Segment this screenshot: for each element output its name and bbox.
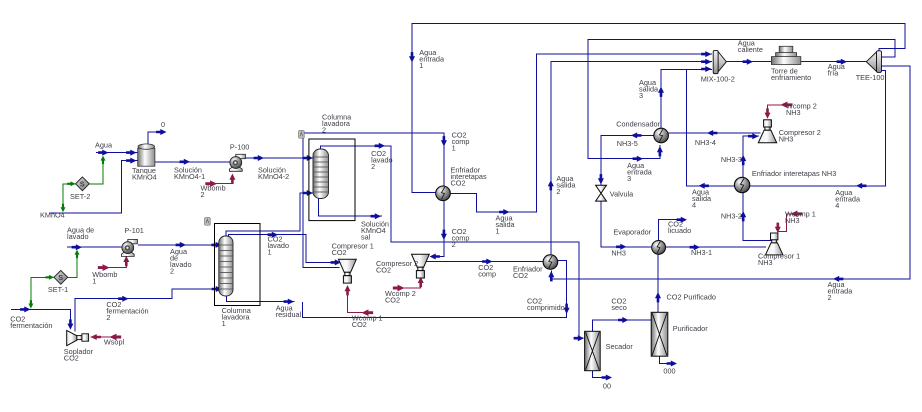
svg-text:CO2: CO2 <box>376 265 391 274</box>
wire CO2 fermentacion 2 blower to column1 <box>75 289 219 332</box>
wire SET-2 link to Agua <box>90 157 103 184</box>
svg-text:fría: fría <box>828 68 839 77</box>
wire NH3-4 compressor2 NH3 to condenser <box>669 132 761 134</box>
wire stream 000 purifier bottoms <box>660 356 668 363</box>
svg-text:SET-2: SET-2 <box>70 192 90 201</box>
boundary column 1 flowsheet <box>215 224 261 306</box>
svg-text:1: 1 <box>268 248 272 257</box>
svg-text:CO2: CO2 <box>513 271 528 280</box>
svg-text:NH3: NH3 <box>785 216 800 225</box>
wire Agua salida 2 Enfriador CO2 to mixer input 2 <box>551 62 712 255</box>
svg-text:CO2: CO2 <box>352 320 367 329</box>
svg-text:KMnO4-2: KMnO4-2 <box>258 172 289 181</box>
boundary column 2 flowsheet <box>309 139 355 221</box>
svg-text:NH3-5: NH3-5 <box>617 139 638 148</box>
svg-text:comprimido: comprimido <box>527 303 565 312</box>
svg-text:KMnO4: KMnO4 <box>40 210 65 219</box>
svg-text:SET-1: SET-1 <box>48 285 68 294</box>
svg-text:NH3: NH3 <box>758 258 773 267</box>
tank Tanque KMnO4 <box>138 144 155 166</box>
svg-text:TEE-100: TEE-100 <box>856 73 885 82</box>
svg-text:seco: seco <box>611 303 626 312</box>
svg-text:Secador: Secador <box>606 342 634 351</box>
SET logical connections green <box>31 157 103 308</box>
wire NH3 valve to evaporator <box>601 201 651 247</box>
heat exchanger Enfriador CO2 <box>543 255 558 270</box>
svg-text:00: 00 <box>603 381 611 390</box>
wire NH3-2 compressor1 NH3 to intercooler NH3 <box>743 193 772 240</box>
wire CO2 licuado from evaporator <box>659 220 684 241</box>
wire Agua salida 1 to mixer input 1 <box>450 54 712 212</box>
wire Solucion KMnO4 sal <box>319 199 382 217</box>
heat exchanger Enfriador interetapas CO2 <box>436 186 451 201</box>
column Columna lavadora 2 <box>313 149 329 199</box>
svg-text:comp: comp <box>478 269 496 278</box>
svg-text:4: 4 <box>835 201 839 210</box>
wire stream KMnO4 into tank <box>49 161 138 213</box>
blower Soplador CO2 <box>67 330 89 345</box>
svg-text:enfriamiento: enfriamiento <box>771 73 811 82</box>
subflowsheet marker column 2 <box>299 131 305 139</box>
svg-text:KMnO4: KMnO4 <box>132 173 157 182</box>
wire energy Wbomb 2 <box>212 175 232 184</box>
wire energy Wcomp 2 NH3 <box>768 105 783 118</box>
wire Agua entrada 1 TEE to intercooler CO2 <box>412 23 905 192</box>
svg-text:2: 2 <box>201 190 205 199</box>
svg-text:KMnO4-1: KMnO4-1 <box>174 172 205 181</box>
heat exchanger Condensador <box>654 128 669 143</box>
pump P-101 <box>121 239 137 256</box>
svg-text:NH3-2: NH3-2 <box>721 211 742 220</box>
heat exchanger Evaporador <box>652 240 666 254</box>
svg-text:NH3: NH3 <box>786 108 801 117</box>
svg-text:1: 1 <box>222 319 226 328</box>
set operator SET-1 <box>54 270 68 284</box>
wire Agua entrada 4 TEE to Enfriador NH3 <box>750 70 885 186</box>
wire energy Wcomp 1 NH3 <box>778 214 792 233</box>
wire Agua salida 3 condenser to mixer input 3 <box>661 69 712 128</box>
svg-text:S: S <box>80 180 85 189</box>
subflowsheet marker column 1 <box>205 218 211 226</box>
svg-text:4: 4 <box>692 201 696 210</box>
svg-text:CO2: CO2 <box>332 248 347 257</box>
wire SET-1 link to CO2 fermentacion <box>31 277 54 307</box>
svg-text:1: 1 <box>419 61 423 70</box>
wire Agua salida 4 Enfriador NH3 to mixer line <box>687 69 735 185</box>
wire Enfriador CO2 outlet loop to lower header <box>302 261 566 318</box>
svg-text:3: 3 <box>627 174 631 183</box>
valve Valvula <box>596 185 607 201</box>
svg-text:CO2: CO2 <box>64 353 79 362</box>
column Columna lavadora 1 <box>219 236 233 296</box>
svg-text:NH3-1: NH3-1 <box>691 248 712 257</box>
svg-text:P-100: P-100 <box>230 143 249 152</box>
wire Agua entrada 2 TEE to Enfriador CO2 <box>551 66 910 279</box>
svg-text:2: 2 <box>556 187 560 196</box>
svg-text:CO2: CO2 <box>451 178 466 187</box>
wire SET-2 link to KMnO4 <box>63 184 75 211</box>
wire Agua de lavado to P-101 <box>67 246 122 248</box>
svg-text:2: 2 <box>828 293 832 302</box>
set operator SET-2 <box>76 177 90 191</box>
svg-text:lavado: lavado <box>67 232 89 241</box>
svg-text:Wsopl: Wsopl <box>104 337 125 346</box>
svg-text:Enfriador interetapas NH3: Enfriador interetapas NH3 <box>752 169 836 178</box>
wire CO2 Purificado purifier to evaporator <box>657 254 659 312</box>
wire Agua de lavado 2 P-101 to column1 <box>138 244 219 246</box>
wire Solucion KMnO4-1 tank to P-100 <box>155 161 230 163</box>
wire Agua fria tower to TEE <box>801 61 866 63</box>
wire stream 0 (tank vent) <box>148 132 158 145</box>
wire Agua entrada 3 TEE to condenser <box>588 40 895 159</box>
compressor Compresor 2 CO2 <box>412 254 430 278</box>
svg-text:Purificador: Purificador <box>673 324 708 333</box>
wire energy Wcomp 1 CO2 <box>348 286 365 313</box>
wire Agua caliente mixer to tower <box>726 61 771 63</box>
svg-text:Agua: Agua <box>95 141 113 150</box>
energy streams maroon <box>91 105 793 337</box>
wire Agua residual column1 bottoms <box>227 296 295 301</box>
svg-text:sal: sal <box>361 232 371 241</box>
adsorber Purificador <box>651 312 668 356</box>
svg-text:0: 0 <box>161 120 165 129</box>
svg-text:lavadora: lavadora <box>322 119 351 128</box>
svg-text:NH3: NH3 <box>779 135 794 144</box>
wire CO2 seco dryer to purifier <box>593 320 652 331</box>
stream arrows navy <box>20 51 866 380</box>
wire stream 00 dryer bottoms <box>593 371 604 378</box>
wire CO2 comp 2 intercooler to compressor2 <box>436 201 444 257</box>
svg-text:NH3-3: NH3-3 <box>721 155 742 164</box>
svg-text:licuado: licuado <box>668 226 691 235</box>
svg-text:2: 2 <box>322 126 326 135</box>
svg-text:3: 3 <box>639 91 643 100</box>
wire CO2 comp 1 compressor1 to intercooler top <box>303 133 444 268</box>
svg-text:NH3: NH3 <box>611 248 626 257</box>
wire stream Agua into tank <box>96 152 138 154</box>
svg-text:1: 1 <box>92 277 96 286</box>
svg-text:fermentación: fermentación <box>10 321 52 330</box>
svg-text:S: S <box>58 273 63 282</box>
wire column1 top to compressor1 CO2 inlet <box>229 235 337 263</box>
svg-text:Valvula: Valvula <box>610 189 634 198</box>
svg-text:caliente: caliente <box>738 45 763 54</box>
tee TEE-100 <box>866 51 881 73</box>
svg-text:2: 2 <box>106 313 110 322</box>
wire CO2 lavado 1 column1 top to column2 lower inlet <box>226 193 314 236</box>
svg-text:CO2 Purificado: CO2 Purificado <box>667 293 716 302</box>
compressor Compresor 2 NH3 <box>758 120 776 143</box>
compressor Compresor 1 NH3 <box>765 233 782 255</box>
mixer MIX-100-2 <box>713 50 726 73</box>
svg-text:fermentación: fermentación <box>106 307 148 316</box>
compressor Compresor 1 CO2 <box>339 259 357 283</box>
svg-text:Evaporador: Evaporador <box>613 228 651 237</box>
wire NH3-3 intercooler NH3 to compressor2 NH3 <box>743 136 759 177</box>
svg-text:2: 2 <box>170 266 174 275</box>
adsorber Secador <box>585 331 601 370</box>
wire energy Wbomb 1 <box>104 257 126 268</box>
svg-text:MIX-100-2: MIX-100-2 <box>701 75 735 84</box>
wire NH3-5 condenser to valve <box>601 135 654 184</box>
wire energy Wcomp 2 CO2 <box>402 278 421 289</box>
svg-text:2: 2 <box>452 240 456 249</box>
svg-text:P-101: P-101 <box>124 226 143 235</box>
svg-text:CO2: CO2 <box>385 295 400 304</box>
wire CO2 lavado 2 / CO2 comprimido to Secador <box>321 146 584 338</box>
wire NH3-1 evaporator to compressor1 NH3 <box>666 246 766 248</box>
svg-text:2: 2 <box>371 162 375 171</box>
heat exchanger Enfriador interetapas NH3 <box>734 177 749 192</box>
svg-text:1: 1 <box>496 226 500 235</box>
cooling tower Torre de enfriamiento <box>771 46 800 64</box>
wire SET-1 link to Agua de lavado <box>68 251 77 278</box>
svg-text:lavadora: lavadora <box>222 313 251 322</box>
svg-text:residual: residual <box>276 310 302 319</box>
wire Solucion KMnO4-2 P-100 to column 2 <box>246 157 314 159</box>
wire energy Wsopl <box>91 336 114 338</box>
wire CO2 comp compressor2 to Enfriador CO2 <box>426 261 543 263</box>
svg-text:1: 1 <box>452 143 456 152</box>
svg-text:NH3-4: NH3-4 <box>695 138 716 147</box>
wire CO2 fermentacion to blower <box>11 309 70 324</box>
svg-text:000: 000 <box>663 366 675 375</box>
svg-text:Condensador: Condensador <box>616 119 660 128</box>
pump P-100 <box>229 154 245 171</box>
